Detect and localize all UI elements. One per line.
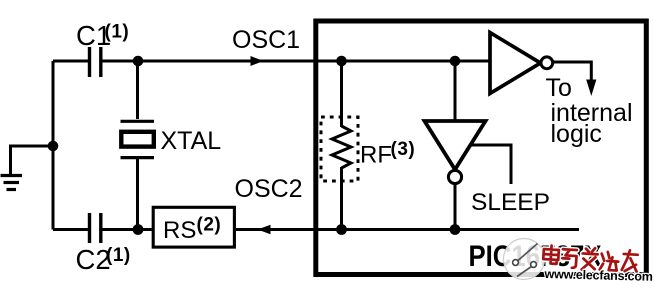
chip box PIC16F87X <box>316 21 647 275</box>
inverter U1 <box>490 33 541 94</box>
wire bottom rail left <box>53 228 88 231</box>
node dot ground junction <box>48 141 59 152</box>
wire OSC2 line from RS box into chip <box>236 228 579 231</box>
inverter U2 sleep-gated <box>425 121 486 170</box>
svg-text:www.elecfans.com: www.elecfans.com <box>543 267 653 284</box>
wire XTAL top stub <box>136 61 139 119</box>
arrow OSC2 left <box>258 225 271 235</box>
wire left vertical rail <box>52 61 55 230</box>
ground <box>1 176 23 190</box>
resistor RS box <box>153 207 234 247</box>
svg-text:To: To <box>546 74 572 102</box>
dashed box around RF <box>321 117 358 181</box>
wire SLEEP stub <box>471 145 511 184</box>
node dot RF top <box>336 56 347 67</box>
arrow OSC1 right <box>251 56 264 66</box>
wire C2 to RS box <box>102 228 152 231</box>
watermark logo circle <box>504 239 545 280</box>
node dot RF bottom <box>336 224 347 235</box>
node dot U2 input <box>450 56 461 67</box>
svg-text:(2): (2) <box>197 215 222 236</box>
wire U2 input branch <box>454 61 457 121</box>
resistor RF zigzag <box>332 126 351 168</box>
wire RF branch top <box>340 61 343 127</box>
wire U2 output to bottom rail <box>454 185 457 230</box>
svg-text:(3): (3) <box>391 139 416 160</box>
svg-text:(1): (1) <box>105 22 130 43</box>
svg-text:OSC1: OSC1 <box>232 26 300 54</box>
svg-text:RS: RS <box>163 217 196 244</box>
node dot junction C1/XTAL <box>133 56 144 67</box>
wire U1 output to corner and down <box>554 62 592 84</box>
watermark url www.elecfans.com <box>543 267 653 284</box>
wire ground branch <box>11 146 54 174</box>
wire RF branch bottom <box>340 167 343 230</box>
capacitor C2 <box>90 213 101 243</box>
capacitor C1 <box>90 47 101 77</box>
watermark chinese characters <box>543 245 638 273</box>
crystal XTAL <box>121 121 155 157</box>
svg-text:SLEEP: SLEEP <box>471 189 550 216</box>
bubble U2 <box>448 170 461 183</box>
svg-text:(1): (1) <box>106 245 131 266</box>
svg-text:OSC2: OSC2 <box>235 175 303 203</box>
arrow down to internal logic <box>586 80 596 97</box>
svg-text:logic: logic <box>551 120 602 148</box>
wire OSC1 line from C1 to U1 input <box>102 60 490 63</box>
wire XTAL bottom stub <box>136 158 139 230</box>
wire top rail from left corner to C1 left plate <box>53 60 88 63</box>
node dot C2/XTAL/RS junction <box>133 224 144 235</box>
node dot U2 output <box>450 224 461 235</box>
svg-text:RF: RF <box>360 142 392 169</box>
bubble U1 <box>541 57 553 69</box>
svg-text:XTAL: XTAL <box>161 127 222 155</box>
